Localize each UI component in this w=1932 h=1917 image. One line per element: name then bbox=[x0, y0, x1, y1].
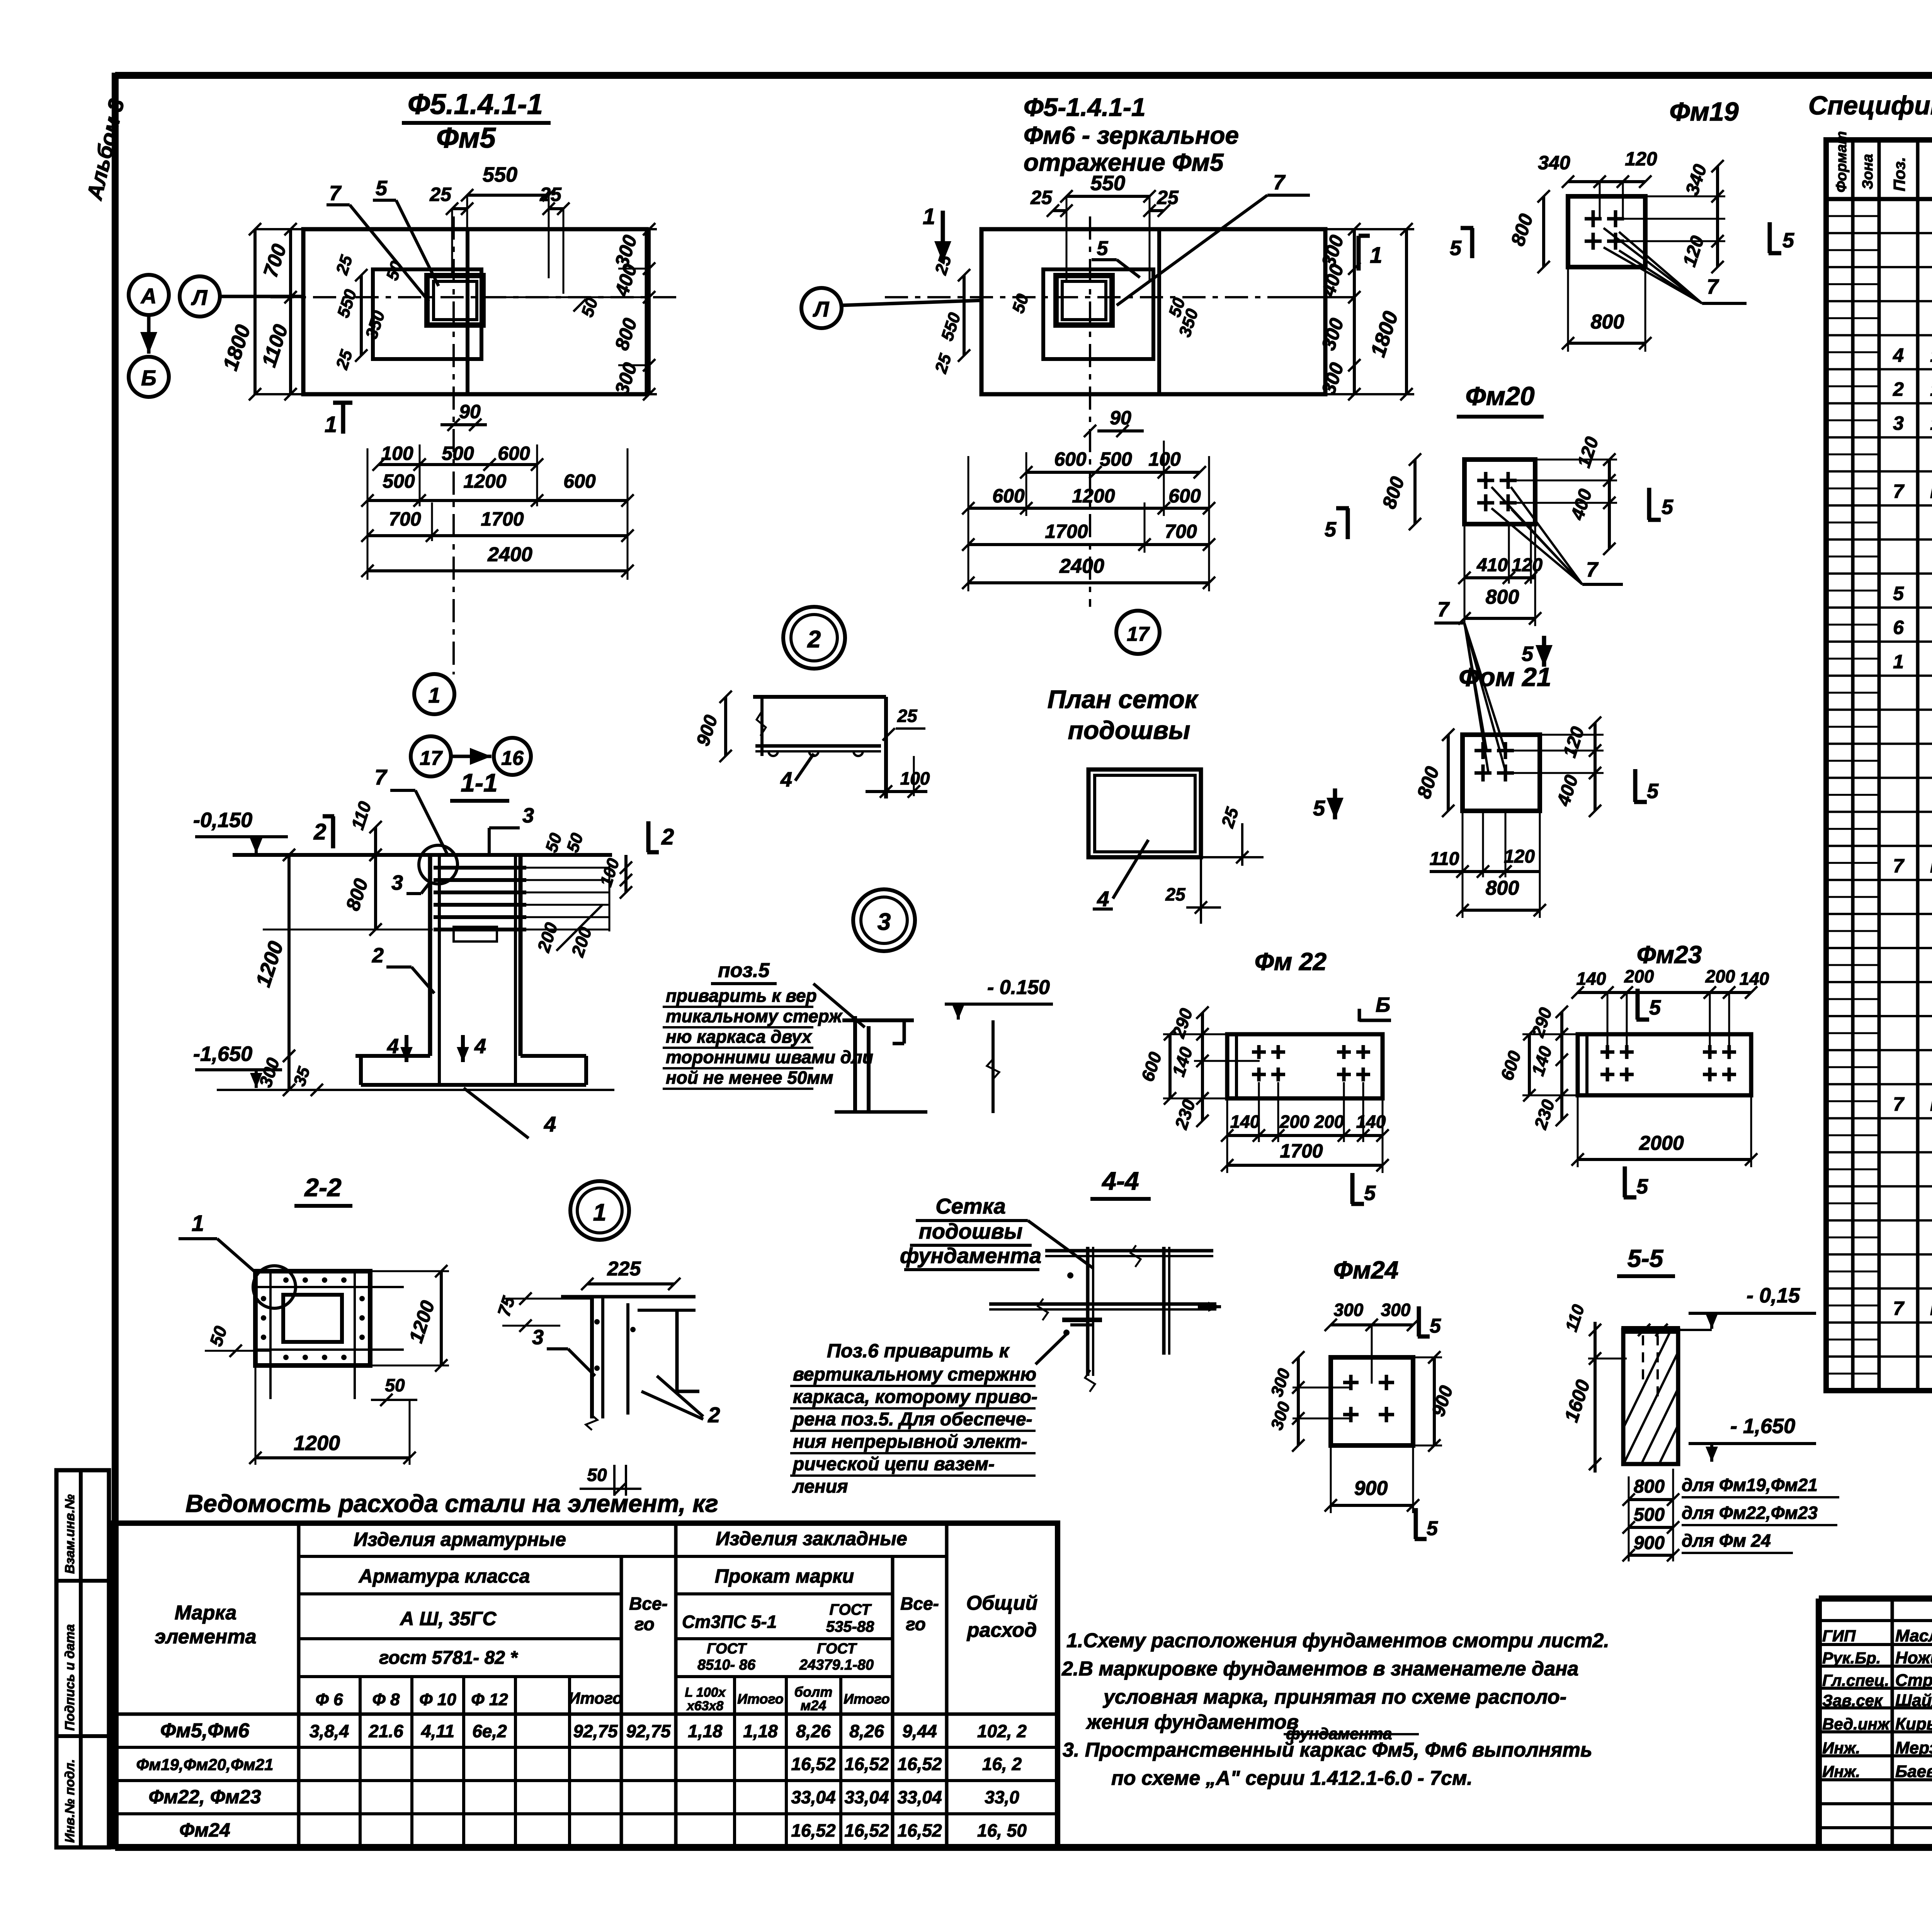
svg-text:для Фм19,Фм21: для Фм19,Фм21 bbox=[1682, 1475, 1818, 1495]
svg-text:Мерзлякова: Мерзлякова bbox=[1895, 1738, 1932, 1757]
svg-text:приварить к вер: приварить к вер bbox=[666, 986, 817, 1006]
svg-text:2000: 2000 bbox=[1639, 1132, 1684, 1154]
svg-text:ГОСТ: ГОСТ bbox=[707, 1641, 747, 1657]
svg-text:3: 3 bbox=[391, 871, 403, 894]
svg-text:5: 5 bbox=[1649, 996, 1661, 1019]
svg-text:го: го bbox=[906, 1614, 926, 1634]
svg-text:Б: Б bbox=[141, 366, 156, 390]
svg-text:Ст3ПС 5-1: Ст3ПС 5-1 bbox=[682, 1612, 777, 1632]
svg-text:5: 5 bbox=[1522, 642, 1534, 666]
detail circle 17 bbox=[411, 736, 451, 776]
FM22 anchor bolts bbox=[1252, 1050, 1266, 1054]
svg-text:Ф5.1.4.1-1: Ф5.1.4.1-1 bbox=[408, 88, 543, 120]
svg-text:2-2: 2-2 bbox=[304, 1173, 342, 1202]
svg-text:25: 25 bbox=[1165, 884, 1186, 904]
svg-text:110: 110 bbox=[1430, 849, 1459, 869]
svg-text:подошвы: подошвы bbox=[1068, 716, 1190, 744]
svg-text:ГОСТ 24379.1-80: ГОСТ 24379.1-80 bbox=[1930, 1093, 1932, 1115]
FM19 anchor bolts bbox=[1585, 217, 1602, 221]
FM20 anchor bolts bbox=[1477, 479, 1494, 482]
FM5 anchor plate bbox=[427, 276, 483, 325]
2-2 weld circle bbox=[253, 1266, 296, 1308]
svg-text:16,52: 16,52 bbox=[897, 1820, 942, 1840]
svg-text:1200: 1200 bbox=[294, 1432, 340, 1455]
svg-text:24379.1-80: 24379.1-80 bbox=[799, 1657, 874, 1673]
svg-text:800: 800 bbox=[1486, 586, 1519, 608]
svg-text:7: 7 bbox=[1707, 275, 1719, 298]
FM19 outline bbox=[1568, 196, 1645, 267]
spec table frame bbox=[1826, 140, 1932, 1391]
svg-text:1: 1 bbox=[325, 412, 337, 437]
svg-text:1: 1 bbox=[923, 204, 935, 229]
4-4 mesh bars top bbox=[1045, 1249, 1213, 1253]
FM5 centerlines bbox=[452, 216, 455, 674]
svg-text:гост 5781- 82 *: гост 5781- 82 * bbox=[379, 1648, 518, 1668]
svg-text:Фм5: Фм5 bbox=[436, 122, 497, 154]
svg-text:5: 5 bbox=[1782, 229, 1794, 252]
svg-text:Шайхратов: Шайхратов bbox=[1895, 1691, 1932, 1710]
svg-text:5: 5 bbox=[1450, 237, 1462, 260]
svg-text:План сеток: План сеток bbox=[1048, 685, 1199, 713]
svg-text:тикальному стерж: тикальному стерж bbox=[666, 1006, 843, 1026]
svg-text:410: 410 bbox=[1476, 555, 1508, 575]
FM24 outline bbox=[1331, 1357, 1413, 1445]
svg-text:1: 1 bbox=[428, 683, 440, 707]
svg-text:5: 5 bbox=[1893, 583, 1904, 604]
svg-text:А Ш, 35ГС: А Ш, 35ГС bbox=[399, 1608, 497, 1629]
FM23 anchor bolts bbox=[1600, 1050, 1614, 1054]
svg-text:25: 25 bbox=[1156, 187, 1179, 208]
svg-text:Вед.инж: Вед.инж bbox=[1822, 1715, 1890, 1733]
svg-text:5: 5 bbox=[1636, 1175, 1648, 1198]
svg-text:7: 7 bbox=[1273, 171, 1286, 194]
svg-text:х63х8: х63х8 bbox=[686, 1699, 724, 1713]
svg-text:5: 5 bbox=[376, 177, 388, 200]
svg-text:33,0: 33,0 bbox=[985, 1787, 1019, 1807]
2-2 inner rect bbox=[283, 1295, 342, 1342]
svg-text:16,52: 16,52 bbox=[791, 1820, 836, 1840]
grid circle A bbox=[129, 275, 169, 315]
svg-text:16,52: 16,52 bbox=[791, 1754, 836, 1774]
svg-text:120: 120 bbox=[1512, 555, 1543, 575]
vedomost horizontals bbox=[299, 1555, 947, 1558]
circle2 detail plate bbox=[753, 695, 886, 699]
svg-text:5: 5 bbox=[1647, 780, 1659, 803]
svg-text:Все-: Все- bbox=[629, 1594, 668, 1614]
FM5 pedestal bbox=[373, 269, 481, 359]
svg-text:1200: 1200 bbox=[1072, 485, 1115, 507]
svg-text:17: 17 bbox=[420, 747, 443, 770]
svg-text:ГОСТ: ГОСТ bbox=[817, 1641, 857, 1657]
svg-text:16,52: 16,52 bbox=[897, 1754, 942, 1774]
svg-text:подошвы: подошвы bbox=[919, 1219, 1023, 1243]
svg-text:9,44: 9,44 bbox=[902, 1721, 937, 1741]
svg-text:Прокат марки: Прокат марки bbox=[715, 1565, 854, 1587]
svg-text:жения фундаментов: жения фундаментов bbox=[1085, 1711, 1299, 1733]
svg-text:4: 4 bbox=[1893, 344, 1904, 366]
FM6 plan outline bbox=[981, 229, 1325, 394]
FM6 detail circle 17 bbox=[1116, 611, 1160, 654]
svg-text:25: 25 bbox=[1030, 187, 1053, 208]
svg-text:4: 4 bbox=[387, 1035, 399, 1058]
svg-text:Поз.: Поз. bbox=[1890, 157, 1908, 191]
svg-text:Фм24: Фм24 bbox=[1333, 1256, 1399, 1284]
svg-text:- 1,650: - 1,650 bbox=[1730, 1415, 1795, 1438]
svg-text:- 0,15: - 0,15 bbox=[1747, 1284, 1800, 1307]
svg-text:Подпись и дата: Подпись и дата bbox=[63, 1624, 77, 1731]
svg-text:Фм23: Фм23 bbox=[1637, 941, 1702, 969]
svg-text:500: 500 bbox=[1100, 448, 1132, 470]
svg-text:Фм20: Фм20 bbox=[1465, 381, 1534, 411]
svg-text:вертикальному стержню: вертикальному стержню bbox=[793, 1364, 1036, 1385]
svg-text:600: 600 bbox=[992, 485, 1025, 507]
svg-text:Поз.6 приварить к: Поз.6 приварить к bbox=[827, 1340, 1010, 1362]
svg-text:Рук.Бр.: Рук.Бр. bbox=[1822, 1649, 1881, 1667]
svg-text:Инж.: Инж. bbox=[1822, 1762, 1860, 1781]
svg-text:7: 7 bbox=[1893, 855, 1905, 877]
5-5 dashed center rebar bbox=[1656, 1335, 1659, 1399]
svg-text:рической цепи вазем-: рической цепи вазем- bbox=[792, 1454, 995, 1474]
svg-text:1: 1 bbox=[1893, 651, 1904, 672]
svg-text:500: 500 bbox=[442, 443, 474, 464]
svg-text:535-88: 535-88 bbox=[826, 1618, 874, 1635]
svg-text:1.Схему расположения фундамент: 1.Схему расположения фундаментов смотри … bbox=[1066, 1629, 1609, 1652]
svg-text:Изделия арматурные: Изделия арматурные bbox=[354, 1529, 566, 1550]
svg-text:Масленников: Масленников bbox=[1895, 1626, 1932, 1645]
svg-text:33,04: 33,04 bbox=[791, 1787, 835, 1807]
svg-text:Итого: Итого bbox=[844, 1691, 890, 1707]
svg-text:3,8,4: 3,8,4 bbox=[310, 1721, 349, 1741]
svg-text:100: 100 bbox=[900, 768, 930, 788]
svg-text:3: 3 bbox=[1893, 412, 1904, 434]
svg-text:Марка: Марка bbox=[175, 1602, 237, 1624]
svg-text:500: 500 bbox=[1634, 1505, 1665, 1525]
225 channel detail bbox=[590, 1296, 594, 1418]
FM21 anchor bolts bbox=[1475, 749, 1492, 752]
svg-text:Общий: Общий bbox=[966, 1592, 1038, 1614]
svg-text:-1,650: -1,650 bbox=[193, 1042, 252, 1066]
svg-text:элемента: элемента bbox=[155, 1626, 256, 1648]
svg-text:7: 7 bbox=[374, 765, 388, 789]
1-1 column bbox=[428, 855, 432, 1056]
svg-text:1: 1 bbox=[1370, 243, 1382, 268]
5-5 top ticks bbox=[1638, 1324, 1650, 1336]
svg-text:225: 225 bbox=[607, 1258, 641, 1280]
svg-text:ГОСТ 24979.1-80: ГОСТ 24979.1-80 bbox=[1930, 855, 1932, 877]
svg-text:Инв.№ подл.: Инв.№ подл. bbox=[63, 1759, 77, 1843]
svg-text:5-5: 5-5 bbox=[1628, 1245, 1664, 1272]
spec table row lines bbox=[1826, 232, 1932, 234]
svg-text:1700: 1700 bbox=[1280, 1140, 1323, 1162]
svg-text:16, 50: 16, 50 bbox=[977, 1820, 1027, 1840]
svg-text:Фм 22: Фм 22 bbox=[1255, 948, 1327, 976]
svg-text:21.6: 21.6 bbox=[368, 1721, 403, 1741]
svg-text:Все-: Все- bbox=[900, 1594, 939, 1614]
svg-text:3: 3 bbox=[878, 909, 891, 935]
svg-text:4: 4 bbox=[544, 1112, 556, 1136]
svg-text:Фм5,Фм6: Фм5,Фм6 bbox=[160, 1720, 250, 1742]
svg-text:Зона: Зона bbox=[1860, 154, 1876, 189]
svg-text:550: 550 bbox=[483, 163, 517, 186]
svg-text:25: 25 bbox=[897, 706, 918, 726]
svg-text:50: 50 bbox=[587, 1465, 607, 1485]
svg-text:92,75: 92,75 bbox=[573, 1721, 618, 1741]
svg-text:2: 2 bbox=[1893, 378, 1904, 400]
svg-text:для Фм 24: для Фм 24 bbox=[1682, 1531, 1771, 1551]
FM20 outline bbox=[1464, 460, 1535, 524]
svg-text:800: 800 bbox=[1486, 877, 1519, 899]
svg-text:2.В маркировке фундаментов в з: 2.В маркировке фундаментов в знаменателе… bbox=[1061, 1658, 1578, 1680]
svg-text:Арматура класса: Арматура класса bbox=[358, 1565, 530, 1587]
svg-text:6е,2: 6е,2 bbox=[472, 1721, 507, 1741]
svg-text:Итого: Итого bbox=[568, 1689, 622, 1707]
5-5 hatching bbox=[1604, 1326, 1869, 1469]
FM21 outline bbox=[1463, 735, 1540, 811]
svg-text:900: 900 bbox=[1634, 1533, 1665, 1553]
svg-text:Сетка: Сетка bbox=[935, 1194, 1006, 1218]
svg-text:300: 300 bbox=[1381, 1300, 1411, 1320]
svg-text:Ф 8: Ф 8 bbox=[372, 1690, 400, 1709]
svg-text:5: 5 bbox=[1427, 1517, 1438, 1540]
svg-text:140: 140 bbox=[1577, 969, 1606, 989]
svg-text:Изделия закладные: Изделия закладные bbox=[716, 1528, 907, 1549]
svg-text:8,26: 8,26 bbox=[849, 1721, 884, 1741]
svg-text:Кирьянова: Кирьянова bbox=[1895, 1714, 1932, 1733]
svg-text:700: 700 bbox=[1165, 521, 1197, 542]
svg-text:Баева: Баева bbox=[1895, 1762, 1932, 1781]
svg-text:2: 2 bbox=[661, 824, 674, 850]
svg-text:1,18: 1,18 bbox=[743, 1721, 778, 1741]
svg-text:200: 200 bbox=[1624, 966, 1654, 986]
svg-text:Ф 12: Ф 12 bbox=[471, 1690, 508, 1709]
svg-text:-0,150: -0,150 bbox=[193, 809, 252, 832]
svg-text:Фм24: Фм24 bbox=[179, 1819, 230, 1841]
FM24 anchor bolts bbox=[1343, 1381, 1359, 1384]
svg-text:7: 7 bbox=[1437, 598, 1450, 621]
svg-text:16,52: 16,52 bbox=[844, 1754, 889, 1774]
circle2 hooks bbox=[769, 751, 778, 756]
svg-text:5: 5 bbox=[1313, 796, 1325, 820]
svg-text:ГОСТ 24379.1 - 80: ГОСТ 24379.1 - 80 bbox=[1930, 1297, 1932, 1319]
FM5 plan outline bbox=[303, 229, 647, 394]
svg-text:1: 1 bbox=[593, 1199, 606, 1226]
svg-text:6: 6 bbox=[1893, 617, 1904, 638]
svg-text:4: 4 bbox=[474, 1035, 486, 1058]
svg-text:8510- 86: 8510- 86 bbox=[697, 1657, 756, 1673]
sheet border frame bbox=[115, 72, 1932, 79]
svg-text:500: 500 bbox=[383, 470, 415, 492]
svg-text:1.412.1-6: 1.412.1-6 bbox=[1930, 344, 1932, 366]
vedomost frame bbox=[112, 1523, 1058, 1847]
pos5 angle detail bbox=[853, 1016, 857, 1112]
svg-text:2: 2 bbox=[313, 819, 326, 844]
svg-text:140: 140 bbox=[1740, 969, 1769, 989]
svg-text:120: 120 bbox=[1625, 148, 1657, 170]
svg-text:Ф 10: Ф 10 bbox=[419, 1690, 456, 1709]
svg-text:100: 100 bbox=[381, 443, 413, 464]
svg-text:5: 5 bbox=[1662, 495, 1673, 519]
svg-text:200 200: 200 200 bbox=[1279, 1112, 1344, 1132]
svg-text:1200: 1200 bbox=[463, 470, 506, 492]
svg-text:2400: 2400 bbox=[1059, 555, 1104, 577]
svg-text:м24: м24 bbox=[801, 1697, 827, 1713]
svg-text:Стрехнин: Стрехнин bbox=[1895, 1671, 1932, 1690]
svg-text:5: 5 bbox=[1364, 1182, 1376, 1205]
svg-text:7: 7 bbox=[1893, 480, 1905, 502]
svg-text:поз.5: поз.5 bbox=[718, 959, 770, 982]
svg-text:Зав.сек: Зав.сек bbox=[1822, 1691, 1883, 1709]
FM6 anchor plate bbox=[1056, 276, 1112, 325]
detail circle 2 bbox=[783, 607, 845, 669]
svg-text:Б: Б bbox=[1376, 993, 1390, 1016]
svg-text:Спецификация монолитной констр: Спецификация монолитной конструкции фунд… bbox=[1808, 91, 1932, 120]
svg-text:17: 17 bbox=[1127, 623, 1150, 645]
svg-text:рена поз.5. Для обеспече-: рена поз.5. Для обеспече- bbox=[792, 1409, 1032, 1430]
svg-text:5: 5 bbox=[1325, 518, 1337, 541]
1-1 column rebar verticals bbox=[438, 855, 441, 1086]
4-4 weld plate poz6 bbox=[1062, 1318, 1102, 1322]
svg-text:7: 7 bbox=[1586, 558, 1599, 581]
svg-text:600: 600 bbox=[498, 443, 530, 464]
svg-text:16,52: 16,52 bbox=[844, 1820, 889, 1840]
1-1 top surface line bbox=[233, 853, 612, 857]
svg-text:5: 5 bbox=[1097, 237, 1109, 260]
svg-text:4: 4 bbox=[780, 768, 792, 791]
plan setok mesh rect bbox=[1088, 770, 1201, 857]
svg-text:ГИП: ГИП bbox=[1822, 1627, 1856, 1645]
svg-text:ГОСТ 24379.1 - 80: ГОСТ 24379.1 - 80 bbox=[1930, 480, 1932, 502]
FM22 outline bbox=[1227, 1034, 1383, 1098]
grid circle B bbox=[147, 315, 151, 354]
svg-text:4-4: 4-4 bbox=[1101, 1166, 1139, 1195]
svg-text:4,11: 4,11 bbox=[421, 1721, 454, 1741]
svg-text:торонними швами дли: торонними швами дли bbox=[666, 1047, 873, 1067]
2-2 outline bbox=[255, 1271, 370, 1365]
svg-text:800: 800 bbox=[1634, 1476, 1665, 1497]
svg-text:- 0.150: - 0.150 bbox=[987, 976, 1050, 999]
left stamp strip bbox=[56, 1470, 109, 1847]
5-5 bar outline bbox=[1623, 1330, 1678, 1464]
FM6 centerlines bbox=[1089, 216, 1091, 607]
svg-text:600: 600 bbox=[563, 470, 596, 492]
svg-text:ГОСТ: ГОСТ bbox=[830, 1601, 872, 1618]
svg-text:33,04: 33,04 bbox=[844, 1787, 889, 1807]
svg-text:для Фм22,Фм23: для Фм22,Фм23 bbox=[1682, 1503, 1818, 1523]
svg-text:Л: Л bbox=[191, 285, 208, 310]
svg-text:Фм19,Фм20,Фм21: Фм19,Фм20,Фм21 bbox=[136, 1755, 273, 1774]
svg-text:1,18: 1,18 bbox=[688, 1721, 723, 1741]
svg-text:Ф 6: Ф 6 bbox=[315, 1690, 343, 1709]
svg-text:8,26: 8,26 bbox=[796, 1721, 831, 1741]
svg-text:1700: 1700 bbox=[1045, 521, 1088, 542]
vedomost verticals bbox=[297, 1523, 301, 1847]
svg-text:33,04: 33,04 bbox=[897, 1787, 942, 1807]
svg-text:7: 7 bbox=[1893, 1297, 1905, 1319]
svg-text:200: 200 bbox=[1705, 966, 1735, 986]
spec table left columns half-pitch lines bbox=[1826, 215, 1879, 217]
svg-text:550: 550 bbox=[1090, 172, 1125, 195]
svg-text:140: 140 bbox=[1230, 1112, 1260, 1132]
4-4 right arrow end bbox=[1198, 1305, 1221, 1308]
1-1 base slab bbox=[355, 1054, 430, 1058]
title block outer bbox=[1819, 1595, 1932, 1602]
svg-text:Ножин: Ножин bbox=[1895, 1648, 1932, 1667]
svg-text:Фм22, Фм23: Фм22, Фм23 bbox=[148, 1786, 261, 1808]
svg-text:1.412.1-6: 1.412.1-6 bbox=[1930, 412, 1932, 434]
svg-text:25: 25 bbox=[429, 184, 452, 205]
svg-text:Формат: Формат bbox=[1833, 131, 1850, 192]
svg-text:ления: ления bbox=[792, 1476, 848, 1497]
FM6 grid circle L bbox=[801, 288, 842, 328]
svg-text:300: 300 bbox=[1334, 1300, 1364, 1320]
svg-text:140: 140 bbox=[1356, 1112, 1386, 1132]
FM6 pedestal bbox=[1043, 269, 1153, 359]
svg-text:расход: расход bbox=[966, 1619, 1037, 1641]
svg-text:16: 16 bbox=[501, 747, 524, 770]
svg-text:2400: 2400 bbox=[487, 543, 532, 566]
svg-text:Л: Л bbox=[813, 297, 830, 321]
svg-text:1.412.1-6: 1.412.1-6 bbox=[1930, 378, 1932, 400]
2-2 rebar lines bbox=[255, 1286, 404, 1288]
svg-text:4: 4 bbox=[1097, 887, 1109, 911]
detail circle 16 bbox=[494, 738, 531, 775]
FM23 outline bbox=[1578, 1034, 1751, 1095]
svg-text:102, 2: 102, 2 bbox=[977, 1721, 1027, 1741]
svg-text:7: 7 bbox=[329, 182, 342, 205]
svg-text:го: го bbox=[634, 1614, 655, 1634]
svg-text:L 100х: L 100х bbox=[685, 1685, 726, 1700]
svg-text:каркаса, которому приво-: каркаса, которому приво- bbox=[793, 1387, 1037, 1407]
svg-text:Инж.: Инж. bbox=[1822, 1739, 1860, 1757]
svg-text:Взам.инв.№: Взам.инв.№ bbox=[63, 1494, 77, 1574]
svg-text:Фм19: Фм19 bbox=[1669, 97, 1738, 126]
detail circle 1 big bbox=[570, 1181, 629, 1240]
svg-text:Ф5-1.4.1-1: Ф5-1.4.1-1 bbox=[1024, 93, 1146, 121]
svg-text:1-1: 1-1 bbox=[461, 768, 497, 797]
svg-text:3: 3 bbox=[522, 804, 534, 827]
svg-text:16, 2: 16, 2 bbox=[982, 1754, 1022, 1774]
svg-text:92,75: 92,75 bbox=[626, 1721, 671, 1741]
4-4 mesh bars bottom bbox=[989, 1302, 1216, 1306]
svg-text:2: 2 bbox=[807, 626, 821, 653]
1-1 dashed plate bbox=[454, 927, 497, 941]
svg-text:Фм6 - зеркальное: Фм6 - зеркальное bbox=[1024, 121, 1239, 149]
svg-text:ню каркаса двух: ню каркаса двух bbox=[666, 1027, 813, 1047]
svg-text:ной не менее 50мм: ной не менее 50мм bbox=[666, 1067, 833, 1088]
2-2 rebar dots bbox=[283, 1277, 289, 1283]
svg-text:600: 600 bbox=[1054, 448, 1087, 470]
circle 3 bbox=[853, 889, 915, 951]
svg-text:25: 25 bbox=[539, 184, 562, 205]
svg-text:600: 600 bbox=[1168, 485, 1201, 507]
svg-text:7: 7 bbox=[1893, 1093, 1905, 1115]
4-4 vertical bars bbox=[1086, 1247, 1090, 1376]
grid circle L bbox=[180, 276, 220, 317]
svg-text:Ведомость расхода стали на: Ведомость расхода стали на элемент, кг bbox=[185, 1490, 718, 1517]
svg-text:фундамента: фундамента bbox=[900, 1243, 1041, 1268]
svg-text:3: 3 bbox=[532, 1326, 544, 1349]
svg-text:2: 2 bbox=[707, 1403, 720, 1427]
pos5 break line bbox=[992, 1020, 995, 1113]
svg-text:340: 340 bbox=[1538, 152, 1570, 174]
svg-text:А: А bbox=[140, 284, 156, 308]
svg-text:2: 2 bbox=[372, 944, 384, 967]
svg-text:50: 50 bbox=[385, 1375, 405, 1395]
svg-text:1: 1 bbox=[192, 1211, 204, 1236]
svg-text:700: 700 bbox=[389, 508, 421, 530]
svg-text:ния непрерывной элект-: ния непрерывной элект- bbox=[793, 1432, 1027, 1452]
4-4 break marks bbox=[1131, 1245, 1141, 1267]
